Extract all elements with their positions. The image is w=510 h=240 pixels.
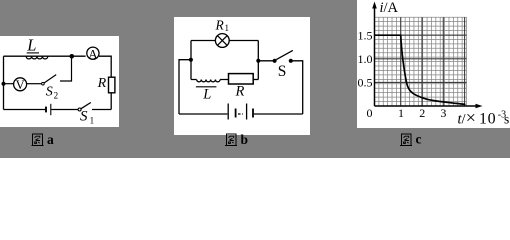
y-axis i/A — [372, 0, 398, 106]
svg-text:V: V — [16, 78, 25, 92]
svg-text:1.0: 1.0 — [358, 52, 373, 66]
node dot on left wire (voltmeter branch) — [2, 82, 6, 86]
resistor R (panel a) — [97, 76, 115, 93]
svg-text:R: R — [235, 83, 245, 99]
svg-text:S: S — [46, 85, 53, 100]
inductor L (panel a coil) — [26, 56, 48, 59]
caption 图a — [31, 134, 43, 146]
node dot: left junction — [189, 58, 193, 62]
switch S (panel b) — [258, 50, 293, 80]
label L (panel b) with underline — [196, 87, 217, 103]
inductor L (panel b coil) — [191, 80, 229, 82]
svg-text:L: L — [26, 36, 36, 55]
svg-text:10: 10 — [479, 111, 496, 128]
wire: panel a outer loop (top/left/right/bottom segments) — [4, 56, 112, 109]
x tick labels — [398, 106, 446, 120]
battery (panel a cell) — [46, 104, 51, 115]
panel a white card — [0, 36, 119, 127]
node dot: right junction — [256, 59, 260, 63]
panel c white card — [357, 0, 510, 128]
resistor R (panel b) — [229, 74, 259, 100]
svg-text:R: R — [97, 76, 107, 91]
node dot on top wire (junction to S2 branch) — [70, 54, 75, 59]
svg-text:2: 2 — [419, 106, 425, 120]
curve i(t) — [375, 35, 465, 104]
y tick labels — [358, 28, 373, 120]
svg-text:i/A: i/A — [380, 0, 399, 16]
caption 图b — [225, 134, 237, 146]
label L (panel a) with underline — [26, 36, 39, 55]
svg-text:a: a — [47, 132, 54, 147]
wire: right outer branch — [254, 61, 303, 114]
x-axis t — [375, 104, 510, 128]
svg-text:0: 0 — [367, 106, 373, 120]
svg-text:S: S — [80, 109, 88, 125]
svg-text:1: 1 — [225, 23, 230, 33]
wire: parallel block rectangle verticals — [191, 41, 258, 80]
wire: left outer branch — [179, 60, 227, 114]
switch S2 — [42, 75, 58, 101]
svg-text:2: 2 — [54, 91, 59, 101]
svg-text:1.5: 1.5 — [358, 28, 373, 42]
voltmeter V — [6, 78, 42, 92]
svg-text:c: c — [416, 132, 422, 147]
svg-text:×: × — [466, 108, 476, 128]
lamp R1 (circle with X) — [191, 34, 258, 48]
svg-text:A: A — [88, 47, 98, 62]
label R1 — [215, 17, 230, 33]
svg-text:3: 3 — [440, 106, 446, 120]
svg-text:0.5: 0.5 — [358, 76, 373, 90]
wire: S2 fixed-terminal stub to top-wire node — [60, 59, 72, 82]
svg-text:R: R — [215, 17, 225, 32]
switch S1 — [78, 103, 94, 126]
svg-text:S: S — [278, 63, 287, 80]
svg-text:L: L — [202, 87, 211, 103]
grid major lines — [375, 17, 467, 106]
grid minor lines — [375, 17, 467, 106]
svg-text:s: s — [504, 112, 509, 127]
battery (panel b, two cells with dashes) — [228, 104, 253, 120]
svg-text:1: 1 — [90, 115, 95, 125]
svg-text:b: b — [241, 132, 249, 147]
ammeter A1 — [87, 47, 99, 62]
panel b white card — [174, 17, 310, 135]
caption 图c — [400, 134, 412, 146]
svg-text:1: 1 — [398, 106, 404, 120]
